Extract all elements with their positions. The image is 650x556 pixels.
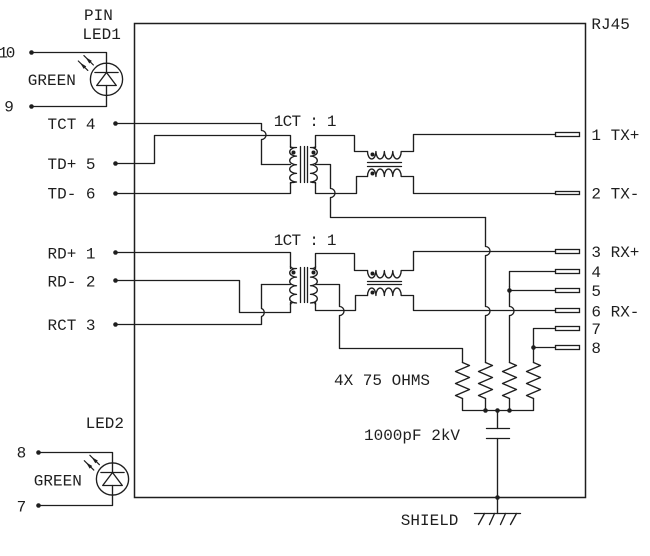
wire junction down to resistor R4: [533, 348, 535, 363]
svg-text:PIN: PIN: [84, 7, 113, 25]
svg-text:3 RX+: 3 RX+: [591, 244, 639, 262]
resistor R4 75 ohms: [527, 363, 541, 399]
L2 top polarity dot: [371, 272, 375, 276]
wire T2 secondary top to choke L2: [316, 254, 368, 271]
transformer T1 primary winding: [290, 147, 297, 184]
wire pin 10 to LED1 anode: [32, 53, 107, 64]
resistor R3 75 ohms: [503, 363, 517, 399]
svg-text:1CT : 1: 1CT : 1: [274, 232, 336, 250]
RJ45 pin 2 contact: [556, 192, 580, 195]
wire pin 8 to LED2 anode: [39, 453, 113, 463]
wire T2 secondary bottom to choke L2: [316, 296, 368, 311]
wire T1 secondary bottom to choke L1: [316, 177, 368, 194]
T1 primary polarity dot: [292, 151, 296, 155]
svg-text:GREEN: GREEN: [28, 72, 76, 90]
svg-text:5: 5: [591, 283, 601, 301]
svg-text:RJ45: RJ45: [591, 16, 629, 34]
svg-text:7: 7: [17, 499, 27, 517]
wire L1 bottom to RJ45 pin 2: [402, 177, 556, 194]
RJ45 pin 8 contact: [556, 346, 580, 350]
svg-text:7: 7: [591, 321, 601, 339]
wire RD- to T2 primary bottom: [116, 281, 291, 313]
T2 secondary polarity dot: [312, 271, 316, 275]
wire L2 bottom to RJ45 pin 6: [402, 296, 556, 311]
RJ45 pin 6 contact: [556, 309, 580, 313]
svg-text:LED1: LED1: [82, 26, 120, 44]
wire TX termination down to resistor R2 (hops over RX wires): [486, 218, 491, 363]
pin RD- junction dot: [113, 278, 118, 283]
choke L2 core: [368, 281, 402, 283]
pin TD- junction dot: [113, 191, 118, 196]
transformer T2 primary winding: [290, 267, 297, 305]
pin 8 junction dot: [36, 450, 41, 455]
RJ45 pin 4 contact: [556, 270, 580, 274]
wire LED1 cathode to pin 9: [32, 96, 107, 107]
wire RCT to T2 primary center tap (hops over RD- wire): [116, 285, 265, 325]
svg-text:TD- 6: TD- 6: [48, 186, 96, 204]
svg-text:GREEN: GREEN: [34, 473, 82, 491]
svg-text:4: 4: [591, 264, 601, 282]
pin TD+ junction dot: [113, 161, 118, 166]
wire T2 secondary center tap to termination (hops over bottom wire): [316, 285, 463, 363]
wire RJ45 pin 8 to junction: [534, 347, 556, 349]
wire through LED1 body: [106, 64, 108, 73]
L1 top polarity dot: [371, 153, 375, 157]
wire through LED2 body: [112, 463, 114, 473]
wire TCT to T1 primary center tap (hops over TD+ wire): [116, 124, 267, 165]
svg-text:LED2: LED2: [86, 415, 124, 433]
wire T1 secondary top to choke L1: [316, 136, 368, 152]
shield node junction dot on connector body: [495, 495, 500, 500]
svg-text:SHIELD: SHIELD: [401, 512, 459, 530]
svg-text:RD+ 1: RD+ 1: [48, 246, 96, 264]
pin 10 junction dot: [29, 50, 34, 55]
pin RD+ junction dot: [113, 250, 118, 255]
svg-text:RCT 3: RCT 3: [48, 317, 96, 335]
wire RJ45 pin 7 to junction: [534, 329, 556, 348]
svg-text:8: 8: [591, 340, 601, 358]
RJ45 connector body outline: [135, 24, 586, 498]
capacitor C1 1000pF 2kV: [497, 411, 499, 429]
RJ45 pin 1 contact: [556, 133, 580, 137]
wire RJ45 pin 5 to junction: [510, 290, 556, 292]
svg-text:8: 8: [17, 445, 27, 463]
pin TCT junction dot: [113, 121, 118, 126]
choke L1 bottom winding: [367, 169, 401, 176]
L2 bottom polarity dot: [371, 291, 375, 295]
wire RD+ to T2 primary top: [116, 253, 291, 269]
RJ45 pin 7 contact: [556, 327, 580, 331]
transformer T2 core: [300, 268, 302, 303]
RJ45 pin 3 contact: [556, 250, 580, 254]
svg-text:1CT : 1: 1CT : 1: [274, 113, 336, 131]
wire RJ45 pin 4 to resistor R3: [510, 272, 556, 287]
wire resistor bottoms to common node: [463, 399, 534, 411]
transformer T1 secondary winding: [311, 147, 318, 184]
resistor R1 75 ohms: [456, 363, 470, 399]
LED1 green LED: [90, 63, 122, 95]
LED2 green LED: [96, 463, 128, 495]
resistor R2 75 ohms: [479, 363, 493, 399]
svg-text:4X 75 OHMS: 4X 75 OHMS: [334, 372, 430, 390]
svg-text:9: 9: [4, 99, 14, 117]
pin 7/8 junction dot: [531, 345, 536, 350]
RJ45 pin 5 contact: [556, 289, 580, 293]
choke L2 top winding: [367, 271, 401, 278]
node R2 junction dot: [483, 408, 488, 413]
T1 secondary polarity dot: [312, 151, 316, 155]
svg-text:TCT 4: TCT 4: [48, 116, 96, 134]
svg-text:1000pF 2kV: 1000pF 2kV: [364, 427, 460, 445]
svg-text:RD- 2: RD- 2: [48, 274, 96, 292]
wire L2 top to RJ45 pin 3: [402, 252, 556, 271]
wire LED2 cathode to pin 7: [39, 496, 113, 506]
svg-text:10: 10: [0, 45, 15, 63]
choke L1 core: [368, 162, 402, 164]
svg-text:TD+ 5: TD+ 5: [48, 156, 96, 174]
svg-text:1 TX+: 1 TX+: [591, 127, 639, 145]
L1 bottom polarity dot: [371, 172, 375, 176]
wire TD- to T1 primary bottom: [116, 183, 291, 194]
pin 4/5 junction dot: [507, 288, 512, 293]
choke L2 bottom winding: [367, 288, 401, 295]
choke L1 top winding: [367, 152, 401, 159]
svg-text:2 TX-: 2 TX-: [591, 186, 639, 204]
transformer T1 core: [300, 147, 302, 183]
wire junction down to resistor R3 (hops over pin 6 wire): [510, 287, 515, 363]
pin RCT junction dot: [113, 322, 118, 327]
wire TD+ to T1 primary top: [116, 136, 291, 164]
pin 9 junction dot: [29, 104, 34, 109]
wire T1 secondary center tap to termination (hops over bottom wire): [316, 165, 486, 218]
node R3 junction dot: [507, 408, 512, 413]
wire L1 top to RJ45 pin 1: [402, 135, 556, 152]
transformer T2 secondary winding: [311, 267, 318, 305]
shield chassis ground symbol: [497, 498, 499, 514]
pin 7 junction dot (LED2): [36, 503, 41, 508]
T2 primary polarity dot: [292, 271, 296, 275]
node capacitor junction dot: [495, 408, 500, 413]
svg-text:6 RX-: 6 RX-: [591, 303, 639, 321]
